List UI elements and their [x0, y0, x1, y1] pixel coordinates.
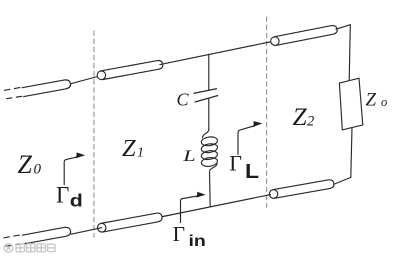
arrow Gamma_in: [181, 196, 199, 223]
watermark (bottom-left): [4, 244, 55, 253]
svg-text:1: 1: [137, 146, 144, 161]
svg-text:Γ: Γ: [56, 183, 69, 208]
transmission line tube T5 (bottom-middle): [97, 212, 163, 232]
capacitor C: [194, 89, 218, 102]
svg-text:o: o: [381, 95, 387, 109]
wire: shunt branch top (junction to capacitor): [208, 54, 210, 90]
top line open-end dashes: [5, 87, 27, 99]
wire: inductor to bottom junction: [209, 172, 212, 207]
svg-text:Z: Z: [293, 102, 308, 131]
svg-text:d: d: [70, 191, 83, 211]
inductor L (coil): [202, 130, 208, 138]
transmission line tube T2 (top-middle): [96, 60, 163, 81]
svg-text:C: C: [177, 90, 190, 110]
svg-text:Γ: Γ: [229, 151, 242, 176]
svg-text:L: L: [245, 160, 259, 183]
wire: T6 to T5 (through shunt junction): [161, 195, 271, 217]
wire: T5 to T4: [71, 228, 102, 235]
reference plane dashed line (left): [93, 31, 95, 237]
transmission line tube T6 (bottom-right): [269, 179, 335, 199]
bottom line open-end dashes: [4, 235, 26, 247]
wire: load bottom to bottom-right corner: [351, 128, 352, 178]
svg-text:Z: Z: [122, 135, 136, 162]
arrow Gamma_d: [64, 157, 78, 185]
svg-text:Z: Z: [18, 150, 33, 179]
reference plane dashed line (right): [266, 17, 268, 207]
transmission line tube T4 (bottom-left): [22, 226, 71, 244]
svg-text:Γ: Γ: [173, 222, 185, 246]
wire: bottom-right corner to T6: [335, 177, 351, 184]
svg-text:2: 2: [307, 114, 314, 130]
svg-text:0: 0: [34, 162, 42, 178]
wire: right vertical (corner to load top): [349, 25, 350, 81]
transmission line tube T3 (top-right): [270, 25, 338, 47]
arrow Gamma_L: [238, 126, 255, 155]
wire: T3 to top-right corner: [336, 25, 350, 30]
svg-text:L: L: [182, 148, 196, 165]
wire: T1 to T2: [70, 76, 101, 84]
wire: capacitor to inductor: [208, 99, 210, 130]
transmission line tube T1 (top-left): [22, 79, 71, 97]
load resistor Z0: [339, 78, 362, 130]
svg-text:Z: Z: [366, 89, 377, 110]
wire: T2 to T3 (through shunt junction): [160, 42, 272, 65]
svg-text:in: in: [189, 232, 206, 250]
